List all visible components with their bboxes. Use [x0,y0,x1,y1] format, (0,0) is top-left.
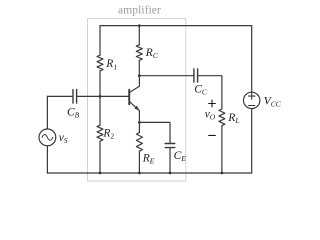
node collector junction [138,74,141,77]
source vS sine [42,135,53,141]
wire top rail [100,25,252,27]
source VCC minus sign [249,105,255,107]
output minus sign [209,134,216,136]
svg-text:CE: CE [174,150,187,163]
svg-text:amplifier: amplifier [118,3,161,16]
svg-text:VCC: VCC [264,95,282,108]
source vS circle [39,129,56,146]
wire RL bottom [221,126,223,173]
svg-text:vS: vS [59,132,68,145]
wire R1 to base node [99,71,101,125]
transistor Q1 collector [129,76,139,93]
amplifier box [88,19,186,181]
wire VCC bottom drop [251,109,253,173]
wire VCC top drop [251,26,253,93]
wire CC to RL corner [198,76,222,109]
wire source bottom loop [46,146,48,173]
resistor R1 [97,55,103,71]
node bottom CE [169,172,172,175]
svg-text:R2: R2 [102,127,114,140]
transistor Q1 base bar [128,90,130,105]
wire R2 bottom [99,141,101,173]
node bottom R2 [99,172,102,175]
capacitor CC [194,69,198,82]
svg-text:RC: RC [145,47,159,60]
wire left bias column top [99,26,101,56]
wire emitter branch to CE [139,122,170,143]
resistor R2 [97,125,103,141]
wire emitter node to RE [138,122,140,132]
source VCC plus sign [249,93,255,99]
wire bottom rail [47,172,251,174]
source VCC circle [244,92,260,108]
transistor Q1 emitter [129,101,139,122]
wire RC to collector node [138,60,140,75]
transistor Q1 emitter arrow [134,106,139,111]
node base junction [99,95,102,98]
resistor RE [136,133,142,152]
resistor RC [136,45,142,61]
node top RC junction [138,24,141,27]
capacitor CE [165,144,175,148]
wire CE bottom [169,148,171,173]
svg-text:vO: vO [205,108,216,121]
node bottom RE [138,172,141,175]
resistor RL [219,109,225,126]
svg-text:RL: RL [227,112,239,125]
wire CB to base [77,95,130,97]
svg-text:R1: R1 [105,58,117,71]
capacitor CB [73,90,77,104]
node bottom RL [221,172,224,175]
output plus sign [209,100,216,107]
wire source top loop [46,96,48,128]
svg-text:RE: RE [142,153,155,166]
wire RE bottom [138,151,140,173]
svg-text:CB: CB [67,107,80,120]
node emitter junction [138,121,141,124]
wire collector node to CC [139,75,194,77]
wire source to CB [47,95,73,97]
svg-text:CC: CC [194,84,208,97]
wire RC top [138,26,140,45]
